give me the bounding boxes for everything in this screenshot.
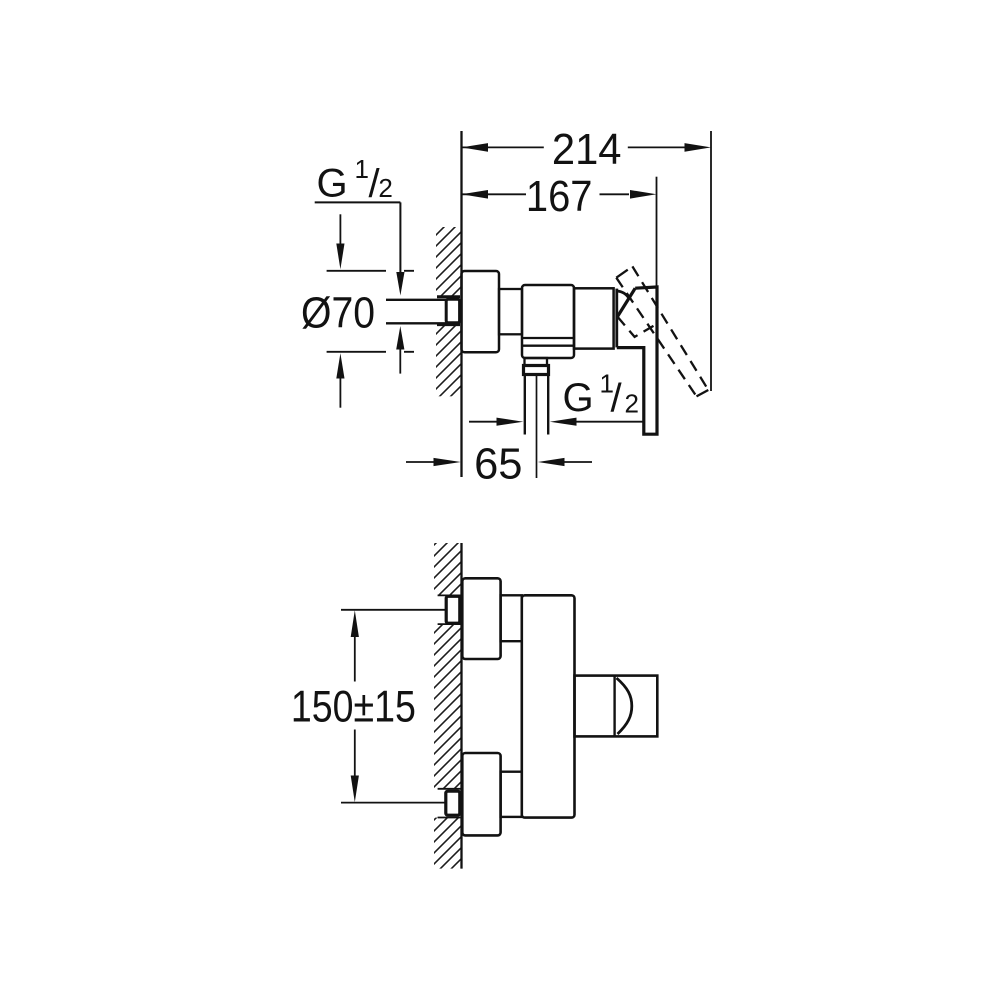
top union in wall	[446, 596, 460, 623]
top step cone	[501, 595, 522, 641]
handle dome arc front	[617, 678, 632, 734]
svg-text:G: G	[563, 376, 594, 420]
dimension 65 left arrow	[406, 461, 434, 463]
dimension 167 left arrowhead	[462, 190, 489, 199]
dashed open hub outline	[617, 317, 654, 337]
handle front view outline	[575, 676, 658, 737]
wall hatching middle part	[434, 624, 462, 789]
bottom escutcheon front	[462, 753, 500, 835]
svg-text:65: 65	[474, 439, 522, 488]
escutcheon side view	[462, 271, 500, 352]
supply pipe bottom line	[386, 322, 447, 324]
dimension 214 right arrowhead	[685, 143, 712, 152]
outlet center line	[536, 375, 538, 479]
wall face line	[460, 131, 462, 477]
hatch boundary line above pipe	[437, 295, 460, 298]
outlet step 1	[525, 358, 548, 366]
G1/2 outlet dimension left arrow	[469, 421, 497, 423]
dimension line with arrows	[351, 610, 359, 637]
dia70 upper arrow	[339, 214, 341, 243]
top escutcheon front	[462, 578, 500, 659]
dashed open lever left edge	[616, 278, 696, 397]
cap dome arc	[617, 291, 630, 299]
dia70 lower arrow	[339, 379, 341, 408]
right body section	[574, 288, 614, 348]
svg-text:1: 1	[355, 154, 369, 184]
supply pipe top line	[386, 299, 447, 301]
dia70 witness line top	[327, 270, 414, 272]
hatch gap boundary lines top union	[438, 595, 462, 624]
witness line bottom	[341, 802, 446, 804]
bottom step cone	[501, 772, 522, 817]
dimension 167 extension line	[656, 177, 658, 287]
G1/2 leader vertical + arrow to pipe	[399, 202, 401, 272]
hatch gap boundary lines bottom union	[438, 789, 462, 818]
dimension 214 line left part	[462, 146, 544, 148]
wall hatching upper part	[436, 227, 461, 297]
wall hatching top part	[434, 543, 462, 595]
outlet nipple left side	[524, 375, 526, 435]
dimension 167 line right part	[600, 193, 630, 195]
svg-text:214: 214	[552, 125, 622, 174]
label G 1/2 outlet	[563, 369, 639, 421]
mixer body front view	[522, 595, 575, 817]
dimension 214 extension line right	[710, 131, 712, 391]
wall hatching lower part	[436, 325, 461, 397]
pipe diameter lower arrow	[396, 326, 404, 350]
G1/2 outlet dimension right arrow	[577, 421, 644, 423]
dimension 167 line left part	[462, 193, 527, 195]
wall face line front view	[460, 543, 462, 869]
svg-text:G: G	[317, 162, 348, 206]
outlet nipple right side	[547, 375, 549, 435]
dashed open lever right edge	[632, 266, 708, 390]
svg-text:167: 167	[526, 172, 593, 221]
mixer body side view	[522, 285, 574, 358]
handle junction line	[613, 676, 615, 737]
body seam line 1	[522, 337, 574, 339]
G1/2 leader underline	[315, 201, 401, 203]
svg-text:2: 2	[625, 388, 639, 418]
dashed open lever bottom end	[697, 390, 709, 396]
wall hatching bottom part	[434, 818, 462, 869]
body seam line 2	[522, 345, 574, 347]
lever hub diagonal	[618, 288, 636, 316]
dia70 witness line bottom	[327, 351, 414, 353]
witness line top	[341, 609, 446, 611]
cartridge cap line	[615, 289, 618, 348]
dimension 65 right arrow	[565, 461, 593, 463]
dashed open lever top end	[616, 266, 632, 277]
dimension 167 right arrowhead	[630, 190, 657, 199]
hatch boundary line below pipe	[437, 323, 460, 326]
dimension 214 line right part	[628, 146, 685, 148]
svg-text:Ø70: Ø70	[301, 289, 375, 338]
pipe coupling in wall	[446, 299, 459, 323]
solid lever handle outline	[617, 287, 657, 434]
dimension 214 left arrowhead	[462, 143, 489, 152]
svg-text:2: 2	[378, 173, 392, 203]
svg-text:150±15: 150±15	[291, 683, 416, 732]
outlet step 2 (bold collar)	[524, 366, 549, 375]
bottom union in wall	[446, 791, 460, 815]
label G 1/2 top left	[317, 154, 393, 206]
connector section	[499, 289, 522, 334]
svg-text:/: /	[611, 377, 623, 421]
